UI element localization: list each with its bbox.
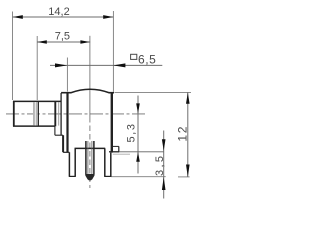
svg-text:14,2: 14,2 (48, 6, 69, 18)
svg-text:5,3: 5,3 (125, 122, 137, 142)
svg-text:3,5: 3,5 (154, 154, 166, 177)
svg-text:12: 12 (176, 125, 190, 142)
svg-text:6,5: 6,5 (138, 52, 156, 66)
svg-text:7,5: 7,5 (55, 30, 70, 42)
